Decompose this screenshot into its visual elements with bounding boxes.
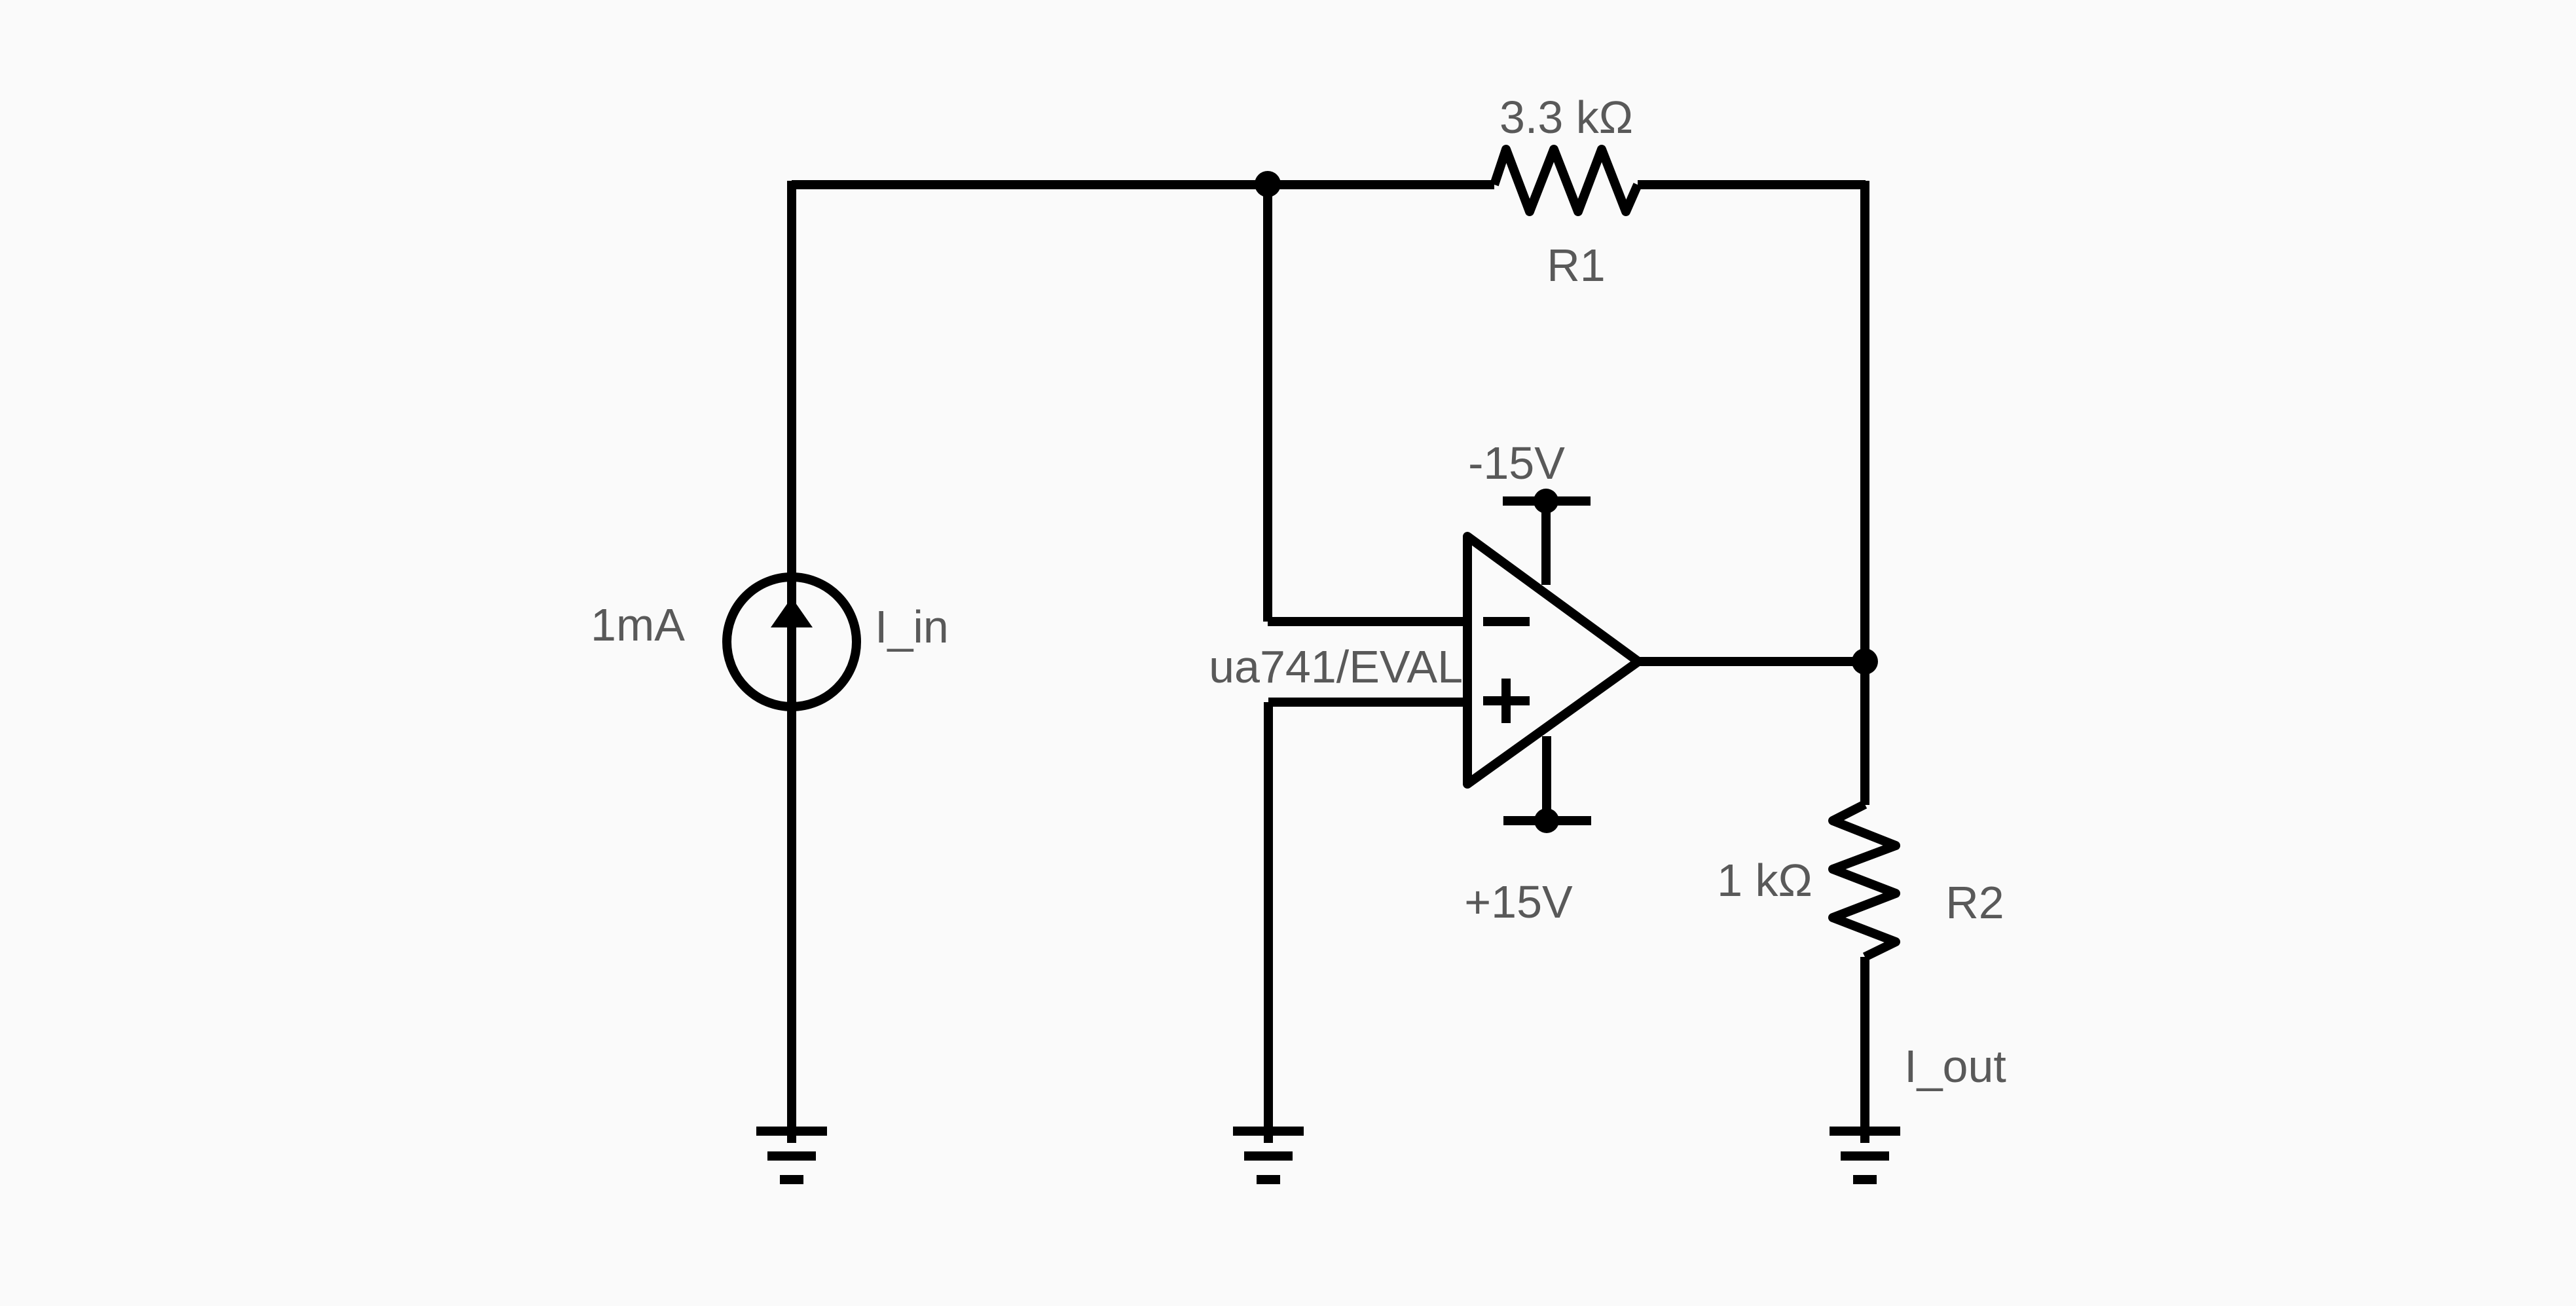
-15V supply dot bbox=[1534, 489, 1558, 513]
op-amp U1 minus symbol bbox=[1483, 617, 1530, 626]
wire: non-inverting input to ground vertical bbox=[1264, 702, 1273, 1143]
svg-text:+15V: +15V bbox=[1464, 876, 1573, 927]
op-amp U1 triangle bbox=[1467, 536, 1638, 784]
svg-text:1 kΩ: 1 kΩ bbox=[1717, 855, 1812, 906]
svg-text:R2: R2 bbox=[1945, 877, 2004, 928]
wire: top net, left horizontal segment bbox=[792, 180, 1494, 189]
wire: left rail through current source bbox=[787, 181, 796, 1143]
op-amp U1 plus symbol bbox=[1483, 696, 1530, 705]
output node junction dot bbox=[1852, 648, 1878, 675]
wire: non-inverting input horizontal bbox=[1268, 698, 1467, 707]
wire: top net, right horizontal segment bbox=[1638, 180, 1866, 189]
op-amp V+ pin stub bbox=[1542, 736, 1551, 821]
svg-text:-15V: -15V bbox=[1468, 438, 1565, 489]
resistor R1 bbox=[1494, 149, 1638, 212]
-15V supply bar bbox=[1503, 496, 1591, 506]
wire: right rail from R1 down to output node bbox=[1860, 181, 1869, 662]
svg-text:I_in: I_in bbox=[875, 601, 949, 652]
wire: output node down to R2 bbox=[1860, 662, 1869, 805]
node A junction dot bbox=[1255, 171, 1281, 197]
wire: feedback vertical from node A to inverting input bbox=[1263, 181, 1272, 622]
current source I1 circle bbox=[727, 577, 856, 707]
wire: inverting input horizontal bbox=[1268, 617, 1467, 626]
svg-text:I_out: I_out bbox=[1904, 1041, 2006, 1092]
ground: under R2 bbox=[1830, 1131, 1900, 1180]
svg-text:ua741/EVAL: ua741/EVAL bbox=[1209, 641, 1463, 692]
wire: op-amp output horizontal bbox=[1638, 657, 1865, 666]
+15V supply dot bbox=[1534, 808, 1559, 833]
svg-text:R1: R1 bbox=[1547, 240, 1605, 291]
wire: R2 down to ground bbox=[1860, 957, 1869, 1143]
svg-text:3.3 kΩ: 3.3 kΩ bbox=[1500, 92, 1633, 143]
resistor R2 bbox=[1833, 804, 1896, 957]
svg-text:1mA: 1mA bbox=[591, 599, 685, 650]
ground: under non-inverting input bbox=[1233, 1131, 1304, 1180]
op-amp V- pin stub bbox=[1541, 501, 1551, 585]
current source I1 arrow bbox=[771, 597, 813, 627]
+15V supply bar bbox=[1503, 816, 1591, 825]
ground: under current source bbox=[756, 1131, 827, 1180]
